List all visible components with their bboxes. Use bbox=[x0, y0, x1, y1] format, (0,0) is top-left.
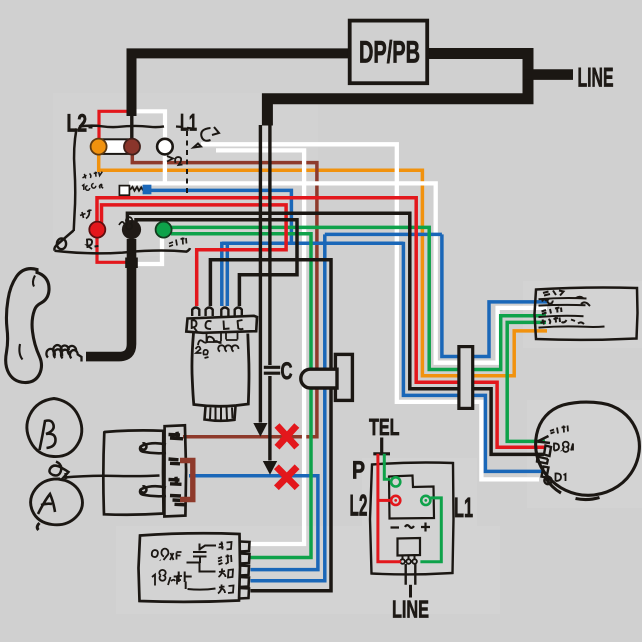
earpiece lug2 bbox=[537, 446, 551, 464]
text midori bbox=[218, 555, 232, 565]
tel green terminal ring 2 bbox=[421, 496, 430, 505]
text 1.8uF bbox=[152, 570, 182, 586]
tel green terminal ring bbox=[391, 477, 400, 486]
note R bottom bbox=[87, 239, 99, 249]
jack socket rect bbox=[335, 354, 352, 400]
capacitor 1.8uF symbol bbox=[174, 572, 192, 590]
note 100 ohm bbox=[82, 184, 103, 191]
letter B bbox=[40, 421, 56, 451]
wire green2: green terminal to bottom box green row bbox=[171, 234, 311, 558]
receiver lug 1 bbox=[169, 432, 184, 439]
terminal orange bbox=[91, 139, 107, 155]
tel red terminal ring bbox=[391, 496, 400, 505]
wire blackA: black terminal to earpiece bbox=[127, 213, 544, 454]
letter A bbox=[38, 494, 55, 514]
box internal wiring bbox=[187, 563, 216, 590]
receiver contact finger top bbox=[140, 443, 166, 453]
wire blue from splice bbox=[151, 190, 291, 241]
wire blue bundle down to bottom box row blue2 bbox=[251, 234, 325, 580]
earpiece lug3 bbox=[542, 467, 552, 485]
coil body bbox=[192, 333, 249, 406]
handset body bbox=[6, 269, 49, 383]
svg-text:L1: L1 bbox=[180, 110, 197, 137]
L1 arrow doodle bbox=[194, 127, 220, 148]
strip box outline bbox=[535, 288, 638, 340]
svg-text:TEL: TEL bbox=[369, 414, 400, 440]
wire blackB: black terminal to coil pin4 bbox=[136, 220, 297, 306]
earpiece circle bbox=[536, 402, 640, 499]
jack plug capsule bbox=[301, 369, 337, 388]
capacitor C plates bbox=[264, 367, 280, 373]
black wire end block below black terminal bbox=[125, 258, 138, 269]
note orange katakana bbox=[83, 172, 103, 179]
receiver lug 3 bbox=[169, 477, 182, 485]
wire thin continuation to maroon terminal bbox=[130, 116, 133, 140]
strip row1 line and text bbox=[539, 291, 587, 300]
earpiece text midori bbox=[550, 426, 568, 434]
earpiece text D1 bbox=[556, 473, 566, 481]
tel red wire down left side to plug bbox=[378, 454, 401, 562]
wire line pair A down to arrow bbox=[259, 125, 262, 423]
wire white1 upper: to earpiece bottom bbox=[201, 144, 539, 479]
X mark 2 bbox=[276, 467, 297, 488]
note 2-ohm under white terminal bbox=[167, 156, 183, 165]
terminal green bbox=[156, 222, 172, 238]
wire white drop: green terminal to thick black stub bbox=[137, 238, 162, 264]
coil plug hatching bbox=[210, 408, 233, 420]
tel unit outer box bbox=[370, 463, 454, 575]
wire white2: splice plug to right strip row2 bbox=[129, 183, 547, 362]
bottom box tab black bbox=[239, 588, 249, 599]
svg-text:C: C bbox=[280, 358, 292, 385]
wire blue coil drop 1 bbox=[220, 242, 224, 306]
strip row4 line and text bbox=[539, 317, 605, 328]
text 0.9uF bbox=[152, 549, 182, 561]
wire line pair B down to capacitor and arrow bbox=[268, 125, 271, 365]
terminal black bbox=[122, 220, 141, 239]
bottom box tab blue1 bbox=[239, 566, 249, 576]
svg-text:L1: L1 bbox=[454, 492, 473, 523]
wire red jumper L2 to DP line bbox=[99, 111, 128, 142]
receiver lug 2 bbox=[169, 459, 181, 464]
text kuro bbox=[218, 585, 234, 594]
wire thick LINE stub bbox=[523, 69, 573, 80]
terminal maroon bbox=[124, 139, 140, 155]
wire red1: red terminal to earpiece lug2 bbox=[97, 198, 545, 447]
maroon bracket lug2-lug4 bbox=[180, 461, 193, 500]
wire blue coil drop 2 bbox=[226, 242, 230, 306]
terminal red bbox=[89, 222, 105, 238]
coil inner windings bbox=[198, 337, 222, 345]
wire white bundle: to bottom box white row bbox=[216, 150, 304, 544]
wire blue receiver to bottom box row blue1 bbox=[189, 476, 318, 570]
wire maroon: maroon terminal down-right to receiver lug1 bbox=[132, 152, 317, 437]
coil pin C bbox=[206, 308, 213, 317]
sketch enclosure bottom edge bbox=[55, 248, 191, 253]
strip row3 line and text bbox=[539, 307, 584, 317]
bottom box tab green bbox=[240, 554, 250, 564]
wire red drop: red terminal to thick black stub bbox=[97, 238, 126, 263]
DP/PB box bbox=[350, 21, 428, 84]
note 90 bbox=[119, 217, 132, 229]
terminal white bbox=[157, 139, 173, 155]
tel cord single line bbox=[409, 585, 412, 598]
tel green wire 2 around right to plug bbox=[420, 498, 441, 562]
sketch enclosure left edge bbox=[74, 129, 77, 232]
bottom box tab white bbox=[240, 542, 250, 552]
white pill between orange and maroon terminals bbox=[99, 139, 132, 154]
tel plug box bbox=[398, 538, 421, 556]
sketch enclosure notch and hole bbox=[54, 231, 73, 251]
svg-text:L2: L2 bbox=[66, 110, 87, 138]
wire red2: red terminal to coil pin R bbox=[102, 205, 287, 306]
tel cord double line bbox=[406, 564, 416, 585]
tel green wire from T-bar to terminal bbox=[384, 454, 390, 479]
wire blueA: down around capsule up to strip row1 bbox=[442, 234, 547, 356]
strip row2 line and text bbox=[539, 299, 591, 307]
svg-text:L2: L2 bbox=[349, 490, 367, 523]
wire white jumper L1 to DP line bbox=[136, 111, 165, 142]
circle A bbox=[31, 479, 83, 530]
wire thick top from terminal area to DP/PB box bbox=[132, 53, 350, 116]
svg-text:LINE: LINE bbox=[392, 597, 429, 624]
text shiro bbox=[219, 542, 232, 550]
handset cord coil bbox=[46, 345, 81, 361]
tel plug prongs bbox=[403, 556, 415, 560]
sketch enclosure top edge bbox=[79, 126, 164, 128]
hook link curl and line to receiver bbox=[49, 462, 159, 480]
tel unit inner step shape bbox=[389, 476, 434, 519]
TEL stub and T-bar bbox=[373, 438, 390, 454]
wire blue horizontal to coil L bbox=[222, 242, 404, 246]
coil pin 4 bbox=[235, 308, 242, 317]
subtle light scan patches bbox=[53, 93, 318, 256]
coil bottom plug bbox=[205, 407, 236, 421]
receiver lug 4 bbox=[170, 496, 185, 505]
arrow head B bbox=[263, 461, 277, 475]
note cha katakana bbox=[80, 210, 92, 219]
wire orange: orange terminal to right strip row4 bbox=[99, 154, 547, 376]
svg-text:DP/PB: DP/PB bbox=[359, 35, 420, 70]
earpiece lug1 bbox=[538, 436, 551, 443]
coil pin L bbox=[221, 308, 228, 317]
coil pin R bbox=[192, 308, 199, 317]
text ao bbox=[219, 569, 234, 578]
receiver lug column bbox=[164, 425, 186, 516]
receiver box bbox=[103, 430, 163, 514]
svg-text:LINE: LINE bbox=[577, 63, 613, 93]
capacitor 0.9uF symbol bbox=[193, 544, 216, 564]
tel red tee to terminal bbox=[378, 499, 390, 502]
sketch dashed L1 divider bbox=[186, 131, 188, 194]
bottom box tab blue2 bbox=[239, 577, 249, 587]
wire thick DP/PB box to LINE and down-left bbox=[267, 54, 528, 126]
note midori green bbox=[169, 238, 187, 247]
arrow head A bbox=[253, 423, 267, 437]
wire white stub: white terminal down to splice line bbox=[163, 154, 167, 183]
minus tilde plus marks bbox=[391, 523, 431, 532]
earpiece text D.81 bbox=[554, 442, 573, 452]
wire blackC: coil pin C to bottom box black row bbox=[210, 260, 331, 591]
svg-text:P: P bbox=[352, 457, 365, 485]
wire blueB: down right to earpiece lug3 bbox=[403, 242, 542, 472]
X mark 1 bbox=[277, 426, 297, 448]
wire thick handset cord to black terminal bbox=[86, 239, 132, 357]
circle B bbox=[27, 399, 82, 457]
wire green1 branch down to earpiece bbox=[507, 322, 546, 441]
coil 2-ohm annotation bbox=[196, 347, 209, 359]
coil top cap bar bbox=[186, 316, 257, 333]
bottom box outline bbox=[139, 533, 241, 602]
wire green1: green terminal to strip row3 and earpiece lug1 bbox=[171, 227, 546, 369]
wire blue upper link to blueA bbox=[325, 233, 442, 237]
splice: white plug, squiggle, blue plug bbox=[119, 186, 129, 196]
receiver contact finger bottom bbox=[140, 486, 166, 496]
coil terminal labels R C L bbox=[192, 320, 198, 332]
